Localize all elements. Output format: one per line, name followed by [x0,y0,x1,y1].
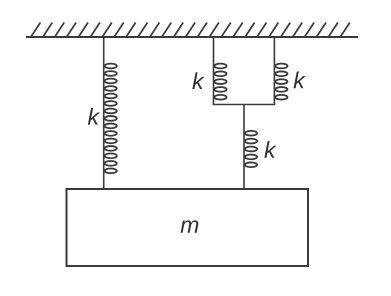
spring K1 (left, ceiling to mass) [105,64,117,174]
spring K4 (series spring to mass) [245,131,257,167]
wire from junction bar through spring K4 to mass [243,105,245,191]
label k (spring K3) [294,72,306,89]
label k (spring K2) [192,72,204,89]
spring K3 (parallel pair, right) [275,64,287,100]
wire from ceiling through spring K1 to mass [103,37,105,190]
junction bar joining springs K2 and K3 [213,104,276,106]
ceiling line [26,36,358,38]
wire from ceiling through spring K2 to junction bar [213,37,215,105]
ceiling hatching [31,23,350,37]
label m (mass) [181,220,199,232]
spring K2 (parallel pair, left) [214,64,226,100]
mass block M [67,189,309,266]
label k (spring K1) [88,108,100,125]
label k (spring K4) [264,141,276,158]
wire from ceiling through spring K3 to junction bar [273,37,275,105]
